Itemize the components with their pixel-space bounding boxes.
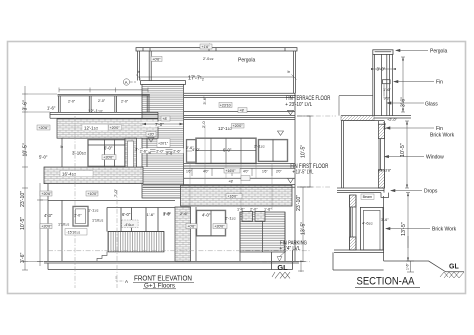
svg-text:1'-6": 1'-6" [237, 208, 245, 212]
svg-text:4'-0": 4'-0" [202, 212, 211, 217]
svg-text:12'-11/2: 12'-11/2 [84, 125, 98, 130]
svg-text:+0'6": +0'6" [152, 57, 161, 61]
svg-text:+8': +8' [239, 109, 244, 113]
svg-text:Brick Work: Brick Work [430, 133, 455, 139]
svg-text:+ 13'-5" LVL: + 13'-5" LVL [292, 169, 313, 175]
svg-text:1'-6": 1'-6" [47, 106, 56, 111]
svg-text:10'-5": 10'-5" [20, 217, 26, 230]
svg-text:2'-0": 2'-0" [98, 99, 106, 103]
svg-text:3'-6": 3'-6" [202, 96, 207, 105]
svg-text:-4'41/2: -4'41/2 [124, 223, 134, 227]
svg-text:+1'6": +1'6" [201, 45, 210, 49]
svg-text:23'-10": 23'-10" [296, 195, 302, 211]
svg-text:9': 9' [286, 70, 291, 73]
svg-text:FRONT ELEVATION: FRONT ELEVATION [134, 276, 192, 283]
svg-text:+20'6": +20'6" [38, 126, 49, 130]
svg-text:3'-6": 3'-6" [401, 97, 407, 107]
svg-text:2'0": 2'0" [276, 170, 282, 174]
svg-text:3'-6": 3'-6" [23, 100, 29, 110]
svg-text:+0'6": +0'6" [187, 225, 196, 229]
svg-text:5'-0": 5'-0" [39, 155, 48, 160]
svg-text:10'-5": 10'-5" [301, 145, 307, 158]
svg-text:Pergola: Pergola [238, 58, 255, 64]
svg-text:+16'0": +16'0" [225, 169, 236, 173]
svg-text:9': 9' [147, 151, 152, 154]
svg-text:SECTION-AA: SECTION-AA [357, 276, 416, 288]
svg-text:Pergola: Pergola [430, 49, 447, 55]
svg-text:2'-0": 2'-0" [68, 100, 76, 104]
svg-text:1'-6": 1'-6" [264, 208, 272, 212]
svg-text:4'0": 4'0" [203, 170, 209, 174]
svg-text:+20'0": +20'0" [103, 156, 114, 160]
svg-text:9'1"-3'8": 9'1"-3'8" [378, 169, 392, 173]
svg-text:1'101/2: 1'101/2 [92, 219, 104, 223]
svg-text:13'-5": 13'-5" [401, 222, 407, 236]
svg-text:+23'10: +23'10 [220, 103, 231, 107]
svg-text:3'-6": 3'-6" [163, 212, 172, 217]
svg-text:-15'101/2: -15'101/2 [66, 231, 80, 235]
svg-text:+16'0": +16'0" [227, 195, 238, 199]
svg-text:G+1 Floors: G+1 Floors [144, 283, 175, 289]
svg-text:9': 9' [59, 145, 64, 148]
svg-text:2'-11/2: 2'-11/2 [225, 215, 236, 220]
svg-text:+20': +20' [147, 133, 154, 137]
svg-text:Glass: Glass [425, 101, 438, 107]
svg-text:+ 23'-10" LVL: + 23'-10" LVL [285, 102, 312, 108]
svg-text:+20'0": +20'0" [110, 126, 121, 130]
svg-text:Brick Work: Brick Work [432, 227, 457, 233]
svg-text:9'3": 9'3" [384, 96, 391, 101]
svg-text:+20'1": +20'1" [158, 142, 169, 146]
svg-text:1'6": 1'6" [186, 170, 192, 174]
svg-text:6'-0": 6'-0" [223, 147, 232, 152]
svg-text:A: A [125, 279, 128, 284]
svg-text:10'-5": 10'-5" [400, 143, 406, 157]
svg-text:+20'6": +20'6" [41, 192, 52, 196]
svg-text:3'-6": 3'-6" [20, 253, 26, 263]
svg-text:Drops: Drops [424, 189, 438, 195]
svg-text:2'-0": 2'-0" [121, 100, 129, 104]
svg-text:10'-5": 10'-5" [23, 143, 29, 156]
svg-text:13'-5": 13'-5" [301, 222, 307, 235]
svg-text:A: A [125, 80, 128, 85]
svg-text:Fin: Fin [436, 80, 443, 86]
svg-text:Beam: Beam [363, 195, 372, 199]
svg-text:Window: Window [426, 155, 444, 161]
svg-text:1'-11/2: 1'-11/2 [88, 209, 99, 213]
svg-text:2'-6": 2'-6" [186, 146, 194, 150]
svg-text:2'-0: 2'-0 [201, 121, 206, 128]
svg-text:GL: GL [449, 264, 459, 271]
svg-text:7'-0": 7'-0" [155, 122, 164, 127]
svg-text:2'-0": 2'-0" [74, 213, 82, 217]
svg-text:2'-01/2: 2'-01/2 [203, 57, 214, 61]
svg-text:3'-0": 3'-0" [377, 67, 386, 72]
svg-text:9': 9' [136, 70, 141, 73]
svg-text:+8': +8' [228, 180, 233, 184]
svg-text:2'-6": 2'-6" [180, 211, 189, 216]
svg-text:GL: GL [277, 263, 288, 272]
svg-text:23'-10": 23'-10" [20, 191, 26, 207]
svg-text:+2'-0": +2'-0" [387, 118, 397, 122]
svg-text:3'-6": 3'-6" [381, 218, 389, 222]
svg-text:1'101/2: 1'101/2 [58, 222, 70, 226]
svg-text:2'-0": 2'-0" [156, 149, 164, 153]
svg-text:+8': +8' [162, 117, 167, 121]
svg-text:16'-41/2: 16'-41/2 [62, 172, 76, 177]
svg-text:+10'0": +10'0" [87, 192, 98, 196]
svg-text:2'-0": 2'-0" [383, 121, 387, 129]
svg-text:4'0": 4'0" [243, 170, 249, 174]
svg-text:3'-101/2: 3'-101/2 [72, 150, 86, 155]
svg-text:1'-6": 1'-6" [147, 212, 156, 217]
svg-text:17'-712: 17'-712 [188, 76, 204, 82]
svg-text:1'6": 1'6" [262, 170, 268, 174]
svg-text:+20'0": +20'0" [214, 225, 225, 229]
svg-text:2'-0": 2'-0" [250, 208, 258, 212]
svg-text:12'-11/2: 12'-11/2 [218, 126, 232, 131]
svg-text:1'-6": 1'-6" [406, 262, 410, 270]
svg-text:12'-11/2: 12'-11/2 [88, 109, 103, 114]
svg-text:6'-0": 6'-0" [104, 146, 113, 151]
svg-text:6'-0": 6'-0" [122, 212, 131, 217]
svg-text:4'-3": 4'-3" [44, 213, 53, 218]
svg-text:7'-0": 7'-0" [113, 188, 118, 197]
svg-text:+ 1'4" LVL: + 1'4" LVL [279, 246, 300, 252]
svg-text:4'-61/2: 4'-61/2 [362, 221, 373, 226]
svg-text:2'-6": 2'-6" [173, 149, 181, 153]
svg-text:1'-6": 1'-6" [383, 87, 392, 92]
svg-text:2'-11/2: 2'-11/2 [254, 143, 265, 148]
svg-text:Fin: Fin [436, 126, 443, 132]
svg-text:+20'0": +20'0" [41, 225, 52, 229]
svg-text:+20'0": +20'0" [233, 124, 244, 128]
